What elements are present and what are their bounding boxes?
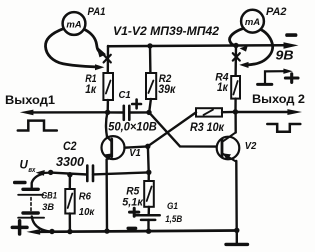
resistor R4 bbox=[231, 76, 240, 99]
wire C1 to node B bbox=[129, 111, 149, 113]
break X1 bbox=[104, 55, 111, 63]
resistor R5 bbox=[144, 181, 154, 207]
wire node C to V2 collector bbox=[234, 112, 236, 133]
battery GB1 plate minus top bbox=[23, 188, 38, 191]
svg-text:mA: mA bbox=[66, 19, 81, 30]
label plus input bbox=[12, 221, 27, 234]
battery GB1 dashed link bbox=[30, 198, 32, 212]
wire R3 to V1 base bbox=[148, 112, 196, 146]
wire V1 base to node B1 bbox=[125, 146, 148, 147]
wire rail to R2 bbox=[149, 46, 152, 73]
node R2 on rail bbox=[147, 43, 152, 48]
wire R2 to node B bbox=[149, 99, 151, 112]
svg-text:9В: 9В bbox=[276, 48, 294, 62]
capacitor C2 bbox=[87, 166, 93, 181]
resistor R6 bbox=[65, 189, 74, 214]
transistor V1 bbox=[102, 136, 125, 159]
node R6 top bbox=[67, 172, 72, 177]
label minus input bbox=[13, 181, 27, 185]
svg-text:PA2: PA2 bbox=[266, 6, 287, 18]
node GB1 on rail bbox=[49, 229, 54, 234]
wire C2 to node E1 bbox=[93, 172, 149, 174]
polarity plus G1 bbox=[130, 208, 139, 216]
wire R5 to G1 bbox=[147, 207, 150, 215]
svg-text:mA: mA bbox=[245, 17, 260, 28]
wire bottom rail bbox=[40, 231, 237, 232]
node V1 emitter on rail bbox=[104, 228, 109, 233]
wire node to R6 bbox=[69, 175, 71, 189]
svg-text:39к: 39к bbox=[158, 84, 176, 96]
svg-text:Выход1: Выход1 bbox=[5, 93, 55, 107]
pulse symbol output 1 bbox=[18, 121, 57, 131]
input arrow bbox=[42, 172, 50, 175]
wire GB1 to rail bbox=[32, 217, 50, 232]
svg-text:PA1: PA1 bbox=[88, 6, 106, 18]
supply plus terminal bbox=[265, 71, 284, 84]
node B1 bbox=[145, 144, 150, 149]
meter PA2 bbox=[241, 10, 264, 33]
battery G1 plate plus bbox=[135, 214, 159, 217]
wire node B1 to node E1 bbox=[147, 146, 150, 172]
node A bbox=[105, 110, 110, 115]
battery GB1 plate plus bottom bbox=[18, 217, 44, 219]
svg-text:3300: 3300 bbox=[56, 154, 85, 169]
svg-text:3В: 3В bbox=[42, 202, 54, 213]
svg-text:Выход 2: Выход 2 bbox=[252, 92, 305, 106]
wire top rail (minus 9V) bbox=[108, 44, 285, 47]
polarity plus C1 bbox=[132, 100, 141, 109]
node B bbox=[146, 110, 151, 115]
wire V2 emitter to ground rail bbox=[235, 161, 238, 230]
wire node B to V2 base bbox=[149, 113, 217, 147]
transistor V2 bbox=[217, 137, 240, 160]
svg-text:вх: вх bbox=[28, 165, 36, 174]
svg-text:U: U bbox=[20, 160, 29, 172]
wire node A to C1 bbox=[108, 111, 123, 113]
wire rail to R4 bbox=[234, 46, 237, 76]
svg-text:G1: G1 bbox=[167, 201, 178, 211]
wire E1 to R5 bbox=[147, 172, 150, 181]
pulse symbol output 2 bbox=[267, 124, 300, 132]
meter PA2 lead left bbox=[230, 28, 244, 46]
wire R3 to node C bbox=[222, 111, 235, 114]
resistor R3 bbox=[196, 108, 222, 116]
node C bbox=[233, 109, 238, 114]
node R6 on rail bbox=[67, 229, 72, 234]
battery GB1 plate plus top bbox=[18, 194, 43, 196]
break X2 bbox=[233, 53, 240, 60]
capacitor C1 bbox=[124, 106, 130, 120]
node R4 on rail bbox=[233, 43, 238, 48]
svg-text:R6: R6 bbox=[79, 191, 92, 202]
wire output 2 bbox=[236, 111, 289, 113]
wire G1 to rail bbox=[147, 220, 149, 231]
svg-text:R3 10к: R3 10к bbox=[190, 122, 225, 134]
node G1 on rail bbox=[146, 229, 151, 234]
svg-text:1к: 1к bbox=[217, 82, 229, 94]
node input bbox=[48, 170, 53, 175]
svg-text:V2: V2 bbox=[245, 141, 257, 152]
svg-text:10к: 10к bbox=[79, 206, 95, 218]
svg-text:C2: C2 bbox=[63, 139, 77, 153]
wire input node to GB1 bbox=[32, 174, 43, 188]
meter PA2 lead right bbox=[247, 30, 273, 65]
svg-text:50,0×10В: 50,0×10В bbox=[108, 119, 157, 133]
meter PA1 lead right bbox=[85, 30, 100, 52]
wire R6 to rail bbox=[69, 214, 71, 232]
resistor R2 bbox=[146, 73, 156, 99]
label minus supply bbox=[285, 33, 297, 37]
svg-text:GB1: GB1 bbox=[41, 190, 57, 200]
svg-text:C1: C1 bbox=[119, 90, 132, 101]
resistor R1 bbox=[103, 73, 113, 100]
svg-text:V1: V1 bbox=[129, 148, 141, 159]
wire rail corner to R1 bbox=[107, 46, 110, 73]
node ground bbox=[234, 228, 239, 233]
svg-text:1,5В: 1,5В bbox=[165, 214, 182, 225]
meter PA1 bbox=[63, 12, 86, 35]
wire top rail arrowhead bbox=[284, 42, 299, 48]
meter PA1 lead left bbox=[45, 29, 95, 67]
wire input to C2 bbox=[51, 173, 87, 175]
ground symbol bbox=[236, 231, 238, 244]
wire node A to V1 collector bbox=[106, 112, 107, 136]
wire V1 emitter to bottom rail bbox=[105, 159, 108, 231]
battery GB1 plate minus bottom bbox=[23, 211, 38, 214]
wire R4 to node C bbox=[234, 99, 237, 112]
label minus G1 bbox=[127, 227, 138, 230]
svg-text:1к: 1к bbox=[85, 84, 97, 96]
wire output 1 bbox=[33, 111, 108, 113]
node E1 bbox=[146, 170, 151, 175]
wire R1 to node A bbox=[106, 100, 109, 112]
battery G1 plate minus bbox=[141, 219, 155, 222]
svg-text:5,1к: 5,1к bbox=[122, 197, 143, 209]
svg-text:V1-V2 МП39-МП42: V1-V2 МП39-МП42 bbox=[113, 24, 219, 38]
